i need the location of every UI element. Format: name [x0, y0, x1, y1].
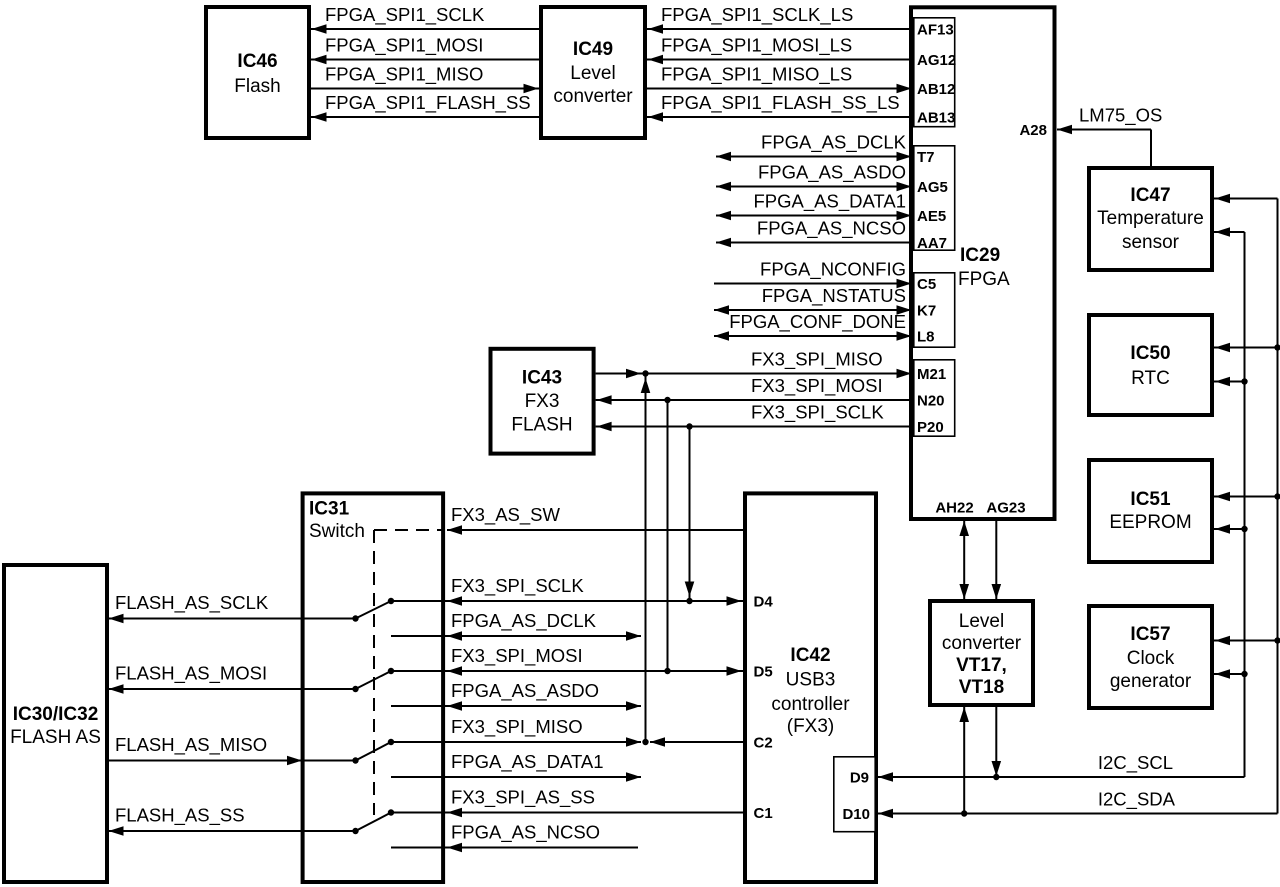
svg-text:FLASH AS: FLASH AS [10, 727, 101, 748]
svg-text:N20: N20 [917, 393, 945, 410]
switch MISO arm [352, 742, 391, 764]
svg-text:Temperature: Temperature [1097, 208, 1204, 229]
wire FX3_AS_SW [447, 525, 743, 535]
wire FPGA_AS_DATA1 stub [391, 772, 641, 782]
svg-text:C5: C5 [917, 276, 936, 293]
dashed switch control line [374, 530, 445, 815]
wire FLASH_AS_SS [107, 826, 356, 836]
wire FPGA_NSTATUS [714, 305, 913, 315]
svg-text:Switch: Switch [309, 521, 365, 542]
svg-text:FPGA: FPGA [958, 269, 1010, 290]
svg-text:AB13: AB13 [917, 110, 955, 127]
wire level converter to I2C_SDA [959, 707, 969, 817]
switch MOSI arm [352, 671, 391, 692]
svg-text:IC43: IC43 [522, 368, 562, 389]
svg-text:FPGA_SPI1_SCLK: FPGA_SPI1_SCLK [325, 4, 485, 26]
svg-text:RTC: RTC [1131, 368, 1170, 389]
FPGA pin group T7 AG5 AE5 AA7 [914, 146, 955, 252]
wire FX3_SPI_MISO from switch [388, 737, 649, 747]
svg-text:Level: Level [570, 63, 615, 84]
wire I2C to IC50 lower [1214, 377, 1248, 387]
svg-text:AH22: AH22 [935, 500, 973, 517]
wire I2C to IC47 lower [1214, 227, 1245, 237]
junction dot FX3_SPI_MOSI [664, 397, 670, 403]
IC43 FX3 FLASH box [491, 349, 594, 454]
svg-text:FPGA_SPI1_MISO: FPGA_SPI1_MISO [325, 64, 483, 86]
svg-text:USB3: USB3 [786, 670, 836, 691]
svg-text:IC57: IC57 [1130, 624, 1170, 645]
wire I2C to IC51 upper [1214, 492, 1280, 502]
wire I2C_SCL [878, 232, 1245, 782]
svg-text:AG23: AG23 [986, 500, 1025, 517]
wire FX3_SPI_MOSI top [596, 395, 913, 405]
svg-text:AA7: AA7 [917, 235, 947, 252]
svg-text:converter: converter [942, 633, 1022, 654]
svg-text:FPGA_SPI1_MOSI: FPGA_SPI1_MOSI [325, 35, 483, 57]
wire I2C to IC47 upper [1214, 194, 1278, 204]
svg-text:K7: K7 [917, 303, 936, 320]
svg-text:converter: converter [553, 86, 633, 107]
wire FX3_SPI_SCLK to D4 [388, 596, 743, 606]
svg-text:FPGA_NCONFIG: FPGA_NCONFIG [760, 259, 906, 281]
wire FPGA_AS_DCLK [716, 152, 913, 162]
wire FPGA_NCONFIG [714, 279, 913, 289]
IC50 RTC box [1089, 315, 1212, 415]
wire FPGA_SPI1_MISO_LS [647, 84, 913, 94]
svg-text:FLASH_AS_MISO: FLASH_AS_MISO [115, 734, 267, 756]
wire AH22 to level converter [959, 521, 969, 599]
wire I2C to IC51 lower [1214, 524, 1248, 534]
svg-text:I2C_SDA: I2C_SDA [1098, 789, 1176, 811]
svg-text:IC46: IC46 [237, 51, 277, 72]
svg-text:IC31: IC31 [309, 499, 350, 520]
switch SCLK arm [352, 601, 391, 622]
svg-text:FPGA_SPI1_FLASH_SS: FPGA_SPI1_FLASH_SS [325, 92, 531, 114]
svg-text:VT18: VT18 [959, 677, 1004, 698]
svg-text:IC47: IC47 [1130, 185, 1170, 206]
wire FPGA_SPI1_MOSI [311, 55, 539, 65]
IC42 USB3 controller box [745, 493, 876, 882]
svg-text:FLASH_AS_MOSI: FLASH_AS_MOSI [115, 663, 267, 685]
wire FPGA_AS_ASDO stub [391, 701, 641, 711]
svg-text:FPGA_AS_DATA1: FPGA_AS_DATA1 [753, 191, 906, 213]
IC31 Switch box [303, 493, 444, 882]
wire FLASH_AS_MISO [107, 756, 356, 766]
svg-text:AB12: AB12 [917, 81, 955, 98]
vertical wire FX3_SPI_MOSI to D5 [667, 400, 669, 671]
wire I2C to IC50 upper [1214, 343, 1280, 353]
svg-text:IC51: IC51 [1130, 489, 1171, 510]
svg-text:FPGA_SPI1_MOSI_LS: FPGA_SPI1_MOSI_LS [661, 35, 852, 57]
svg-text:C2: C2 [754, 735, 773, 752]
svg-text:AF13: AF13 [917, 22, 954, 39]
wire FX3_SPI_MISO top [596, 369, 913, 379]
svg-text:Flash: Flash [234, 76, 280, 97]
wire FPGA_SPI1_MISO [311, 84, 539, 94]
svg-text:FX3_SPI_SCLK: FX3_SPI_SCLK [751, 402, 884, 424]
svg-text:L8: L8 [917, 329, 935, 346]
wire FX3_SPI_MOSI to D5 [388, 666, 743, 676]
svg-text:FX3_SPI_MOSI: FX3_SPI_MOSI [451, 645, 583, 667]
wire FPGA_AS_NCSO stub [391, 843, 638, 853]
svg-text:FPGA_NSTATUS: FPGA_NSTATUS [762, 285, 906, 307]
svg-text:FPGA_AS_NCSO: FPGA_AS_NCSO [757, 218, 906, 240]
svg-text:Clock: Clock [1127, 648, 1175, 669]
svg-text:D4: D4 [754, 594, 774, 611]
junction dot FX3_SPI_SCLK [686, 423, 692, 429]
svg-text:FPGA_CONF_DONE: FPGA_CONF_DONE [729, 311, 906, 333]
svg-text:FX3: FX3 [525, 391, 560, 412]
svg-text:sensor: sensor [1122, 232, 1180, 253]
FPGA pin group M21 N20 P20 [914, 360, 955, 436]
svg-text:AG5: AG5 [917, 179, 948, 196]
svg-text:FX3_AS_SW: FX3_AS_SW [451, 504, 561, 526]
wire FX3_SPI_SCLK top [596, 422, 913, 432]
svg-text:IC50: IC50 [1130, 343, 1170, 364]
wire FPGA_AS_ASDO [716, 182, 913, 192]
wire FPGA_SPI1_FLASH_SS [311, 112, 539, 122]
wire FPGA_AS_NCSO [716, 238, 913, 248]
wire FPGA_SPI1_FLASH_SS_LS [647, 112, 913, 122]
wire AG23 to level converter [992, 521, 1002, 599]
wire FPGA_SPI1_SCLK [311, 24, 539, 34]
svg-text:FPGA_AS_ASDO: FPGA_AS_ASDO [451, 680, 599, 702]
svg-text:A28: A28 [1019, 122, 1047, 139]
wire FX3_SPI_AS_SS to C1 [388, 808, 743, 818]
svg-text:EEPROM: EEPROM [1109, 512, 1191, 533]
IC30/IC32 FLASH AS box [4, 565, 107, 882]
IC46 Flash box [206, 7, 309, 138]
svg-text:VT17,: VT17, [956, 655, 1007, 676]
wire FLASH_AS_MOSI [107, 684, 356, 694]
svg-text:D10: D10 [842, 806, 870, 823]
wire FPGA_SPI1_SCLK_LS [647, 24, 913, 34]
svg-text:FPGA_SPI1_SCLK_LS: FPGA_SPI1_SCLK_LS [661, 4, 853, 26]
svg-text:M21: M21 [917, 366, 946, 383]
svg-text:IC29: IC29 [960, 245, 1000, 266]
svg-text:C1: C1 [754, 805, 773, 822]
svg-text:FPGA_AS_ASDO: FPGA_AS_ASDO [758, 162, 906, 184]
FPGA pin group C5 K7 L8 [914, 273, 955, 347]
svg-text:IC30/IC32: IC30/IC32 [13, 704, 99, 725]
svg-text:controller: controller [771, 694, 850, 715]
IC51 EEPROM box [1089, 460, 1212, 562]
svg-text:FLASH_AS_SS: FLASH_AS_SS [115, 805, 245, 827]
FPGA IC29 box [911, 7, 1055, 519]
svg-text:FPGA_AS_DCLK: FPGA_AS_DCLK [761, 132, 907, 154]
wire FPGA_CONF_DONE [714, 331, 913, 341]
svg-text:FPGA_AS_DCLK: FPGA_AS_DCLK [451, 610, 597, 632]
wire FPGA_AS_DCLK stub [391, 631, 641, 641]
svg-text:FX3_SPI_SCLK: FX3_SPI_SCLK [451, 575, 584, 597]
svg-text:FX3_SPI_MOSI: FX3_SPI_MOSI [751, 375, 883, 397]
svg-text:generator: generator [1110, 671, 1192, 692]
svg-text:FLASH_AS_SCLK: FLASH_AS_SCLK [115, 592, 269, 614]
vertical wire FX3_SPI_SCLK to D4 [685, 427, 695, 602]
wire FPGA_SPI1_MOSI_LS [647, 55, 913, 65]
junction dot FX3_SPI_MISO [642, 370, 648, 376]
wire FLASH_AS_SCLK [107, 614, 356, 624]
wire FPGA_AS_DATA1 [716, 211, 913, 221]
svg-text:(FX3): (FX3) [787, 716, 835, 737]
wire LM75_OS [1057, 125, 1151, 166]
svg-text:FX3_SPI_AS_SS: FX3_SPI_AS_SS [451, 787, 595, 809]
svg-text:FPGA_SPI1_FLASH_SS_LS: FPGA_SPI1_FLASH_SS_LS [661, 92, 900, 114]
IC42 pin group D9 D10 [834, 757, 875, 832]
svg-text:I2C_SCL: I2C_SCL [1098, 752, 1173, 774]
svg-text:P20: P20 [917, 419, 944, 436]
svg-text:FLASH: FLASH [511, 415, 572, 436]
wire level converter to I2C_SCL [992, 707, 1002, 780]
IC47 Temperature sensor box [1089, 168, 1212, 270]
svg-text:LM75_OS: LM75_OS [1079, 105, 1162, 127]
svg-text:AE5: AE5 [917, 208, 946, 225]
wire I2C to IC57 lower [1214, 669, 1248, 679]
IC57 Clock generator box [1089, 606, 1212, 708]
vertical wire FX3_SPI_MISO to switch [641, 374, 651, 743]
svg-text:D5: D5 [754, 664, 773, 681]
svg-text:IC49: IC49 [573, 39, 613, 60]
svg-text:D9: D9 [850, 770, 869, 787]
FPGA pin group AF13 AG12 AB12 AB13 [914, 18, 956, 127]
svg-text:FX3_SPI_MISO: FX3_SPI_MISO [751, 349, 883, 371]
svg-text:Level: Level [959, 611, 1004, 632]
svg-text:FPGA_AS_DATA1: FPGA_AS_DATA1 [451, 751, 604, 773]
wire I2C to IC57 upper [1214, 636, 1280, 646]
wire I2C_SDA [878, 199, 1278, 819]
svg-text:FX3_SPI_MISO: FX3_SPI_MISO [451, 716, 583, 738]
Level converter VT17 VT18 box [930, 601, 1033, 705]
svg-text:FPGA_SPI1_MISO_LS: FPGA_SPI1_MISO_LS [661, 64, 852, 86]
IC29 FPGA label [958, 245, 1010, 290]
wire FX3_SPI_MISO from C2 [650, 737, 743, 747]
svg-text:IC42: IC42 [790, 645, 830, 666]
svg-text:T7: T7 [917, 149, 935, 166]
switch SS arm [352, 813, 391, 835]
svg-text:AG12: AG12 [917, 52, 956, 69]
IC49 Level converter box [541, 7, 645, 138]
svg-text:FPGA_AS_NCSO: FPGA_AS_NCSO [451, 822, 600, 844]
